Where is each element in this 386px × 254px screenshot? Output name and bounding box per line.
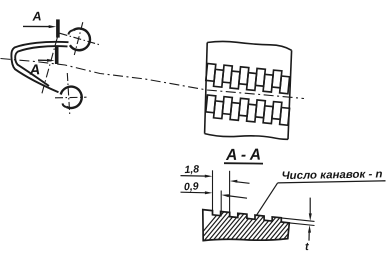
section mark thick bar top	[56, 19, 60, 37]
dimension 1,8 left arrow	[181, 175, 207, 178]
lower eye vertical center line	[67, 73, 70, 116]
section mark thick bar bottom	[55, 47, 59, 65]
depth dim arrow up	[308, 232, 310, 241]
hatching	[191, 210, 330, 246]
dimension 0,9 left arrow	[181, 191, 207, 194]
upper groove band	[205, 64, 290, 94]
dimension 0,9 right arrow	[227, 196, 247, 199]
cutting plane trace	[42, 37, 58, 95]
lower eye hook tip	[63, 103, 67, 107]
plate bottom break edge	[205, 134, 288, 140]
section arrow bottom	[38, 59, 50, 61]
upper eye hook tip	[68, 30, 73, 34]
extension line 2	[229, 171, 231, 216]
dimension 1,8 right arrow	[236, 182, 250, 184]
svg-text:A: A	[28, 62, 40, 78]
upper eye circle	[70, 28, 90, 50]
sectioned bar outline	[203, 210, 289, 241]
lower eye circle	[61, 87, 82, 108]
leader underline	[278, 181, 386, 183]
svg-text:1,8: 1,8	[184, 163, 199, 176]
plate top break edge	[207, 41, 291, 50]
lower groove band	[205, 95, 290, 125]
svg-text:A - A: A - A	[225, 147, 261, 165]
extension line 1	[212, 170, 214, 214]
label A-A underline	[224, 162, 263, 164]
long axis center line	[1, 59, 305, 99]
depth extension line lower	[290, 223, 315, 226]
upper eye tilted center line	[74, 22, 83, 55]
plate left edge	[205, 43, 208, 134]
depth extension line upper	[281, 218, 315, 222]
svg-text:Число канавок - n: Число канавок - n	[281, 168, 382, 182]
section arrow top	[23, 25, 51, 27]
upper eye cross center line	[60, 33, 101, 45]
depth dim arrow down	[309, 198, 311, 215]
fork arm inner edge	[15, 46, 67, 86]
svg-text:A: A	[31, 9, 42, 23]
leader line	[256, 183, 277, 216]
plate right edge	[288, 50, 292, 139]
fork arm outer edge	[11, 42, 68, 92]
extension line 3	[220, 191, 222, 216]
svg-text:0,9: 0,9	[184, 180, 199, 193]
lower eye horizontal center line	[55, 96, 87, 99]
